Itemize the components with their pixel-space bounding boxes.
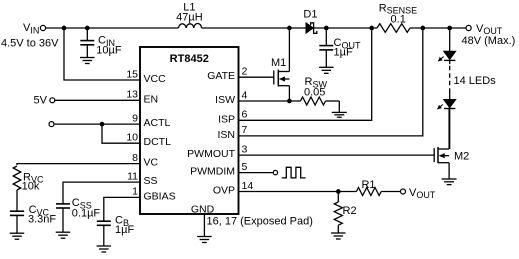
svg-text:RT8452: RT8452: [170, 53, 209, 65]
svg-text:7: 7: [242, 124, 248, 136]
svg-text:13: 13: [126, 89, 138, 101]
svg-text:DCTL: DCTL: [144, 136, 172, 148]
svg-text:D1: D1: [303, 9, 317, 21]
svg-text:16, 17 (Exposed Pad): 16, 17 (Exposed Pad): [207, 215, 313, 227]
svg-text:10: 10: [126, 132, 138, 144]
svg-text:VCC: VCC: [144, 73, 167, 85]
svg-text:ISN: ISN: [217, 129, 235, 141]
svg-text:10k: 10k: [22, 180, 40, 192]
svg-text:1: 1: [132, 186, 138, 198]
svg-text:OVP: OVP: [213, 185, 235, 197]
svg-text:R2: R2: [343, 205, 357, 217]
svg-text:0.05: 0.05: [304, 87, 325, 99]
svg-text:3: 3: [242, 143, 248, 155]
svg-text:GATE: GATE: [207, 70, 235, 82]
svg-text:0.1µF: 0.1µF: [72, 207, 101, 219]
svg-text:8: 8: [132, 152, 138, 164]
svg-text:5: 5: [242, 161, 248, 173]
svg-text:ISW: ISW: [215, 94, 235, 106]
svg-text:4: 4: [242, 89, 248, 101]
svg-text:0.1: 0.1: [391, 14, 406, 26]
svg-text:ACTL: ACTL: [144, 117, 171, 129]
svg-text:GND: GND: [191, 204, 215, 216]
svg-text:SS: SS: [144, 175, 158, 187]
svg-text:1µF: 1µF: [115, 224, 134, 236]
svg-text:6: 6: [242, 109, 248, 121]
svg-text:VIN: VIN: [23, 22, 39, 35]
svg-text:11: 11: [127, 170, 138, 182]
svg-text:2: 2: [242, 66, 248, 78]
svg-text:47µH: 47µH: [176, 12, 203, 24]
svg-text:ISP: ISP: [218, 113, 235, 125]
svg-text:14: 14: [242, 180, 254, 192]
svg-text:9: 9: [132, 112, 138, 124]
svg-text:M1: M1: [271, 57, 286, 69]
svg-text:3.3nF: 3.3nF: [28, 213, 56, 225]
svg-text:4.5V to 36V: 4.5V to 36V: [1, 38, 59, 50]
svg-text:R1: R1: [361, 179, 375, 191]
svg-text:1µF: 1µF: [334, 46, 353, 58]
svg-text:14 LEDs: 14 LEDs: [454, 75, 497, 87]
svg-text:15: 15: [126, 68, 138, 80]
svg-text:PWMDIM: PWMDIM: [190, 166, 235, 178]
svg-text:EN: EN: [144, 93, 159, 105]
svg-text:GBIAS: GBIAS: [144, 190, 176, 202]
svg-text:VC: VC: [144, 157, 159, 169]
svg-text:M2: M2: [454, 150, 469, 162]
svg-text:5V: 5V: [34, 95, 48, 107]
svg-text:VOUT: VOUT: [409, 187, 436, 200]
svg-text:PWMOUT: PWMOUT: [187, 148, 235, 160]
svg-text:48V (Max.): 48V (Max.): [462, 35, 516, 47]
svg-text:10µF: 10µF: [96, 45, 122, 57]
